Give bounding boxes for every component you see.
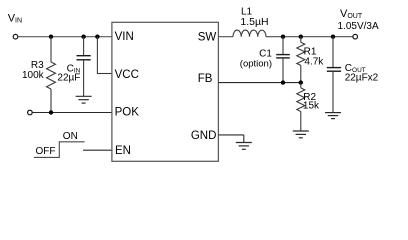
junction VCC stub [95,35,99,39]
junction R1/R2 FB node [299,80,303,84]
svg-text:VIN: VIN [115,31,134,43]
wire SW [219,36,234,38]
svg-text:OFF: OFF [36,146,56,157]
node VOUT label [338,8,379,32]
svg-text:VCC: VCC [115,69,139,81]
wire EN [83,149,112,151]
ground CIN [76,96,92,103]
capacitor C1 [240,37,290,83]
svg-text:GND: GND [191,130,217,142]
resistor R3 [22,37,55,113]
wire GND [219,135,244,143]
junction R3 bottom [49,110,53,114]
terminal POK output [28,110,33,115]
ground COUT [325,113,341,119]
svg-text:22µF: 22µF [57,73,80,84]
terminal VOUT output [353,34,358,39]
regulator IC U1 box [112,22,218,161]
junction R3 top [49,35,53,39]
resistor R1 [297,37,325,83]
svg-text:ON: ON [63,131,78,142]
svg-text:1.5µH: 1.5µH [240,16,268,28]
svg-text:1.05V/3A: 1.05V/3A [338,21,379,32]
junction CIN top [81,35,85,39]
wire VCC stub [97,37,112,74]
junction C1 bottom [281,80,285,84]
svg-text:EN: EN [115,145,131,157]
capacitor CIN [57,37,90,96]
svg-text:(option): (option) [240,58,272,69]
ground GND pin [236,143,252,150]
junction C1 top [281,35,285,39]
svg-text:POK: POK [115,107,140,119]
svg-text:4.7k: 4.7k [304,57,324,68]
svg-text:100k: 100k [22,70,45,81]
svg-text:SW: SW [198,31,217,43]
wire POK [32,112,111,114]
node VIN label [8,12,22,24]
wire VIN rail [18,36,112,38]
svg-text:FB: FB [198,73,213,85]
wire SW to VOUT [266,36,353,38]
ground R2 [293,131,309,138]
inductor L1 [233,7,269,37]
junction R1 top [299,35,303,39]
resistor R2 [297,83,320,131]
svg-text:22µFx2: 22µFx2 [345,73,379,84]
capacitor COUT [327,37,379,113]
wire FB [219,82,301,84]
waveform ON/OFF enable [34,131,85,158]
terminal VIN input [13,34,18,39]
svg-text:15k: 15k [303,101,320,112]
junction COUT top [331,35,335,39]
